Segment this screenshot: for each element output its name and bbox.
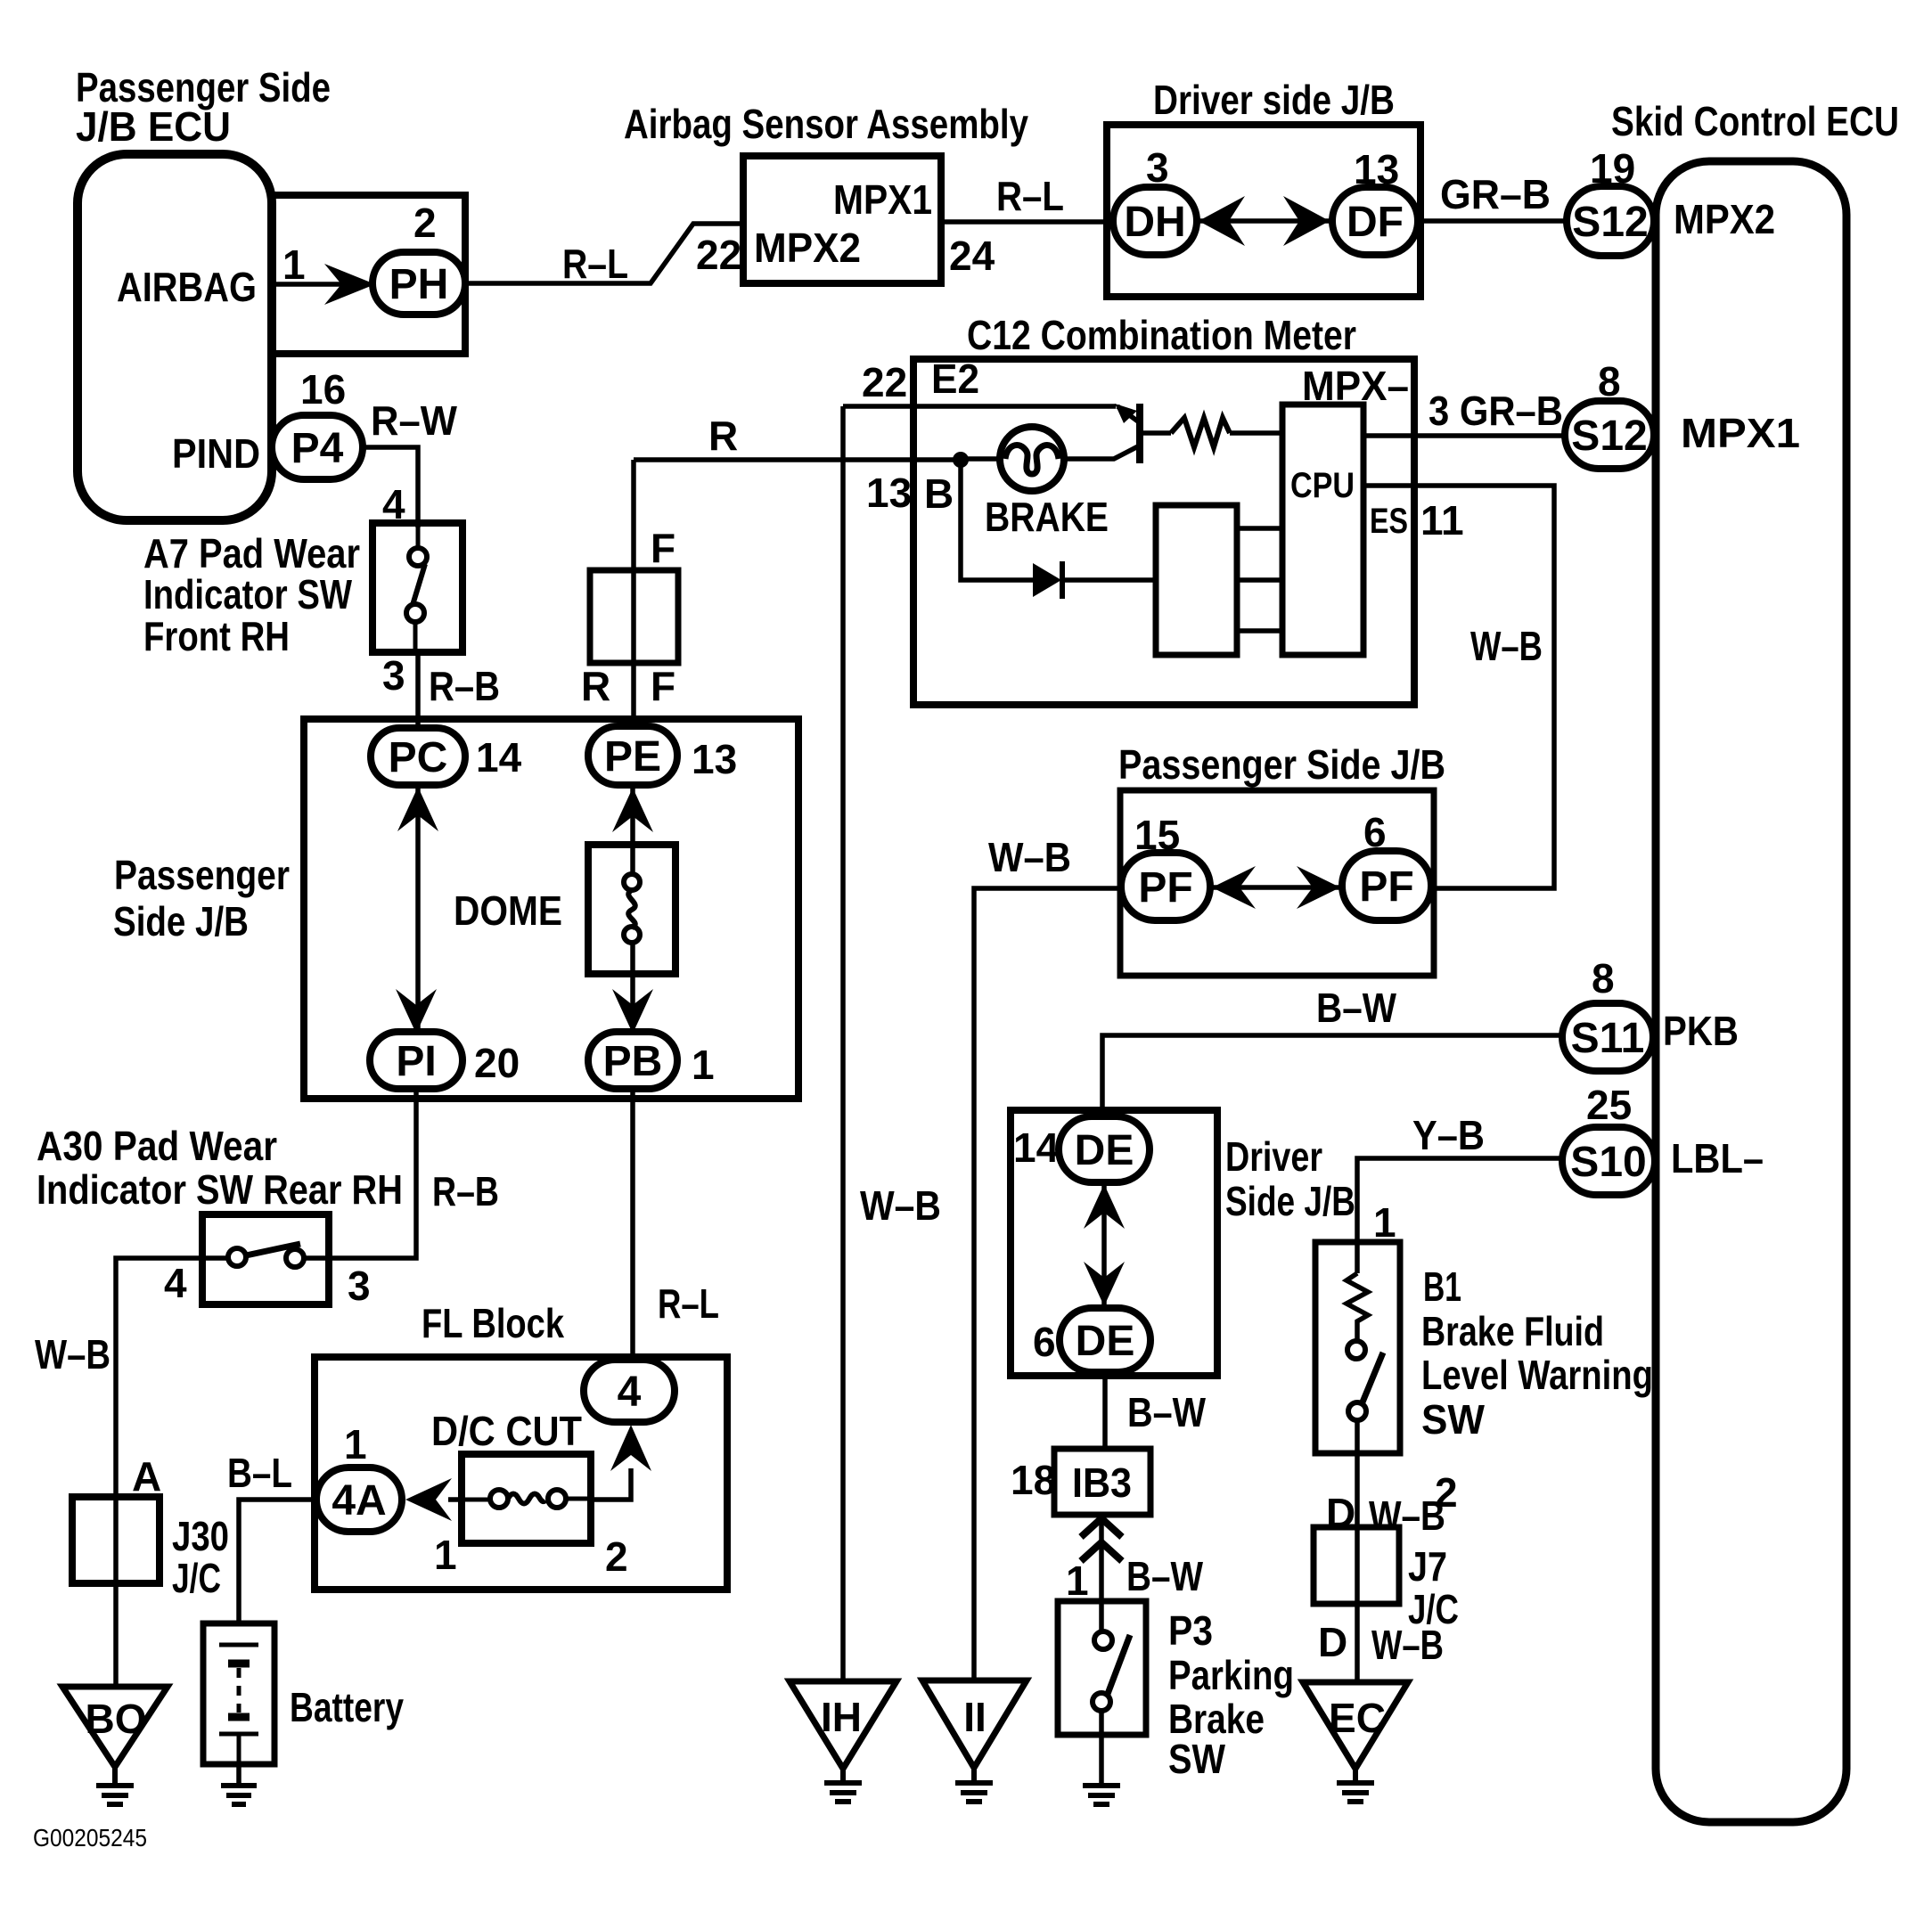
OVALS bbox=[272, 186, 1655, 1532]
connector PH bbox=[372, 252, 465, 315]
svg-text:W–B: W–B bbox=[1470, 623, 1543, 669]
D/C CUT fuse box bbox=[462, 1454, 591, 1543]
svg-text:Battery: Battery bbox=[290, 1684, 404, 1730]
wire R-W from P4 down to A7 switch bbox=[363, 447, 418, 527]
IB3 box bbox=[1054, 1449, 1150, 1515]
svg-text:Parking: Parking bbox=[1168, 1652, 1294, 1698]
ground triangle IH bbox=[790, 1681, 896, 1769]
svg-text:3: 3 bbox=[1146, 144, 1169, 191]
svg-text:22: 22 bbox=[862, 359, 907, 405]
svg-text:MPX1: MPX1 bbox=[1681, 410, 1800, 456]
wire R-B from A7 pin3 to PC bbox=[415, 652, 421, 730]
svg-text:R–B: R–B bbox=[429, 663, 500, 709]
svg-text:Skid Control ECU: Skid Control ECU bbox=[1611, 98, 1899, 144]
wire lamp to transistor collector bbox=[1064, 446, 1138, 459]
svg-text:B–W: B–W bbox=[1126, 1553, 1203, 1599]
svg-text:J30: J30 bbox=[172, 1513, 229, 1559]
arrow up into PC bbox=[397, 787, 438, 831]
connector P4 bbox=[272, 415, 363, 479]
svg-text:EC: EC bbox=[1329, 1695, 1386, 1741]
wire PC to PI inside J/B bbox=[415, 785, 421, 1034]
resistor zigzag bbox=[1171, 418, 1230, 447]
wire IB3 to P3 parking brake sw bbox=[1099, 1515, 1104, 1633]
svg-text:GR–B: GR–B bbox=[1440, 171, 1551, 217]
wire from A30 pin4 to J30 and BO ground (W-B) bbox=[116, 1258, 202, 1688]
svg-text:19: 19 bbox=[1590, 145, 1635, 192]
arrow DH left bbox=[1199, 196, 1245, 246]
A7 switch contacts bbox=[406, 548, 427, 622]
svg-text:11: 11 bbox=[1420, 497, 1464, 544]
svg-text:13: 13 bbox=[1354, 146, 1399, 192]
wire AIRBAG pin1 to PH bbox=[272, 282, 353, 287]
svg-text:CPU: CPU bbox=[1290, 466, 1355, 505]
svg-text:Front RH: Front RH bbox=[143, 613, 290, 659]
connector S11 bbox=[1562, 1003, 1653, 1071]
svg-text:20: 20 bbox=[474, 1040, 520, 1086]
svg-text:Side J/B: Side J/B bbox=[113, 898, 249, 944]
arrow into PH bbox=[324, 264, 375, 305]
wires internal box to CPU bbox=[1237, 528, 1282, 631]
svg-text:DH: DH bbox=[1124, 199, 1185, 246]
connector PF pin15 bbox=[1121, 853, 1210, 920]
wire PF15-PF6 link bbox=[1210, 885, 1342, 890]
svg-text:B–L: B–L bbox=[227, 1450, 292, 1496]
ground triangle EC bbox=[1303, 1682, 1408, 1769]
connector DF bbox=[1332, 187, 1418, 255]
svg-text:S10: S10 bbox=[1570, 1139, 1646, 1186]
svg-text:15: 15 bbox=[1134, 812, 1180, 858]
connector PC bbox=[371, 728, 465, 785]
svg-text:3: 3 bbox=[382, 652, 405, 699]
svg-text:P3: P3 bbox=[1168, 1607, 1213, 1654]
svg-text:PF: PF bbox=[1359, 863, 1413, 911]
Passenger Side J/B box (middle) bbox=[304, 719, 798, 1099]
connector PE bbox=[588, 726, 677, 785]
svg-text:14: 14 bbox=[1013, 1124, 1060, 1171]
C12 internal box bbox=[1156, 505, 1237, 655]
arrow up into oval 4 bbox=[610, 1425, 651, 1471]
wire R-B from PI down to A30 pin3 bbox=[329, 1089, 416, 1258]
arrow up into DE14 bbox=[1084, 1184, 1125, 1229]
connector S10 bbox=[1562, 1127, 1655, 1195]
svg-text:D: D bbox=[1318, 1619, 1347, 1665]
arrow down into PI bbox=[396, 989, 437, 1034]
FL Block box bbox=[315, 1357, 727, 1590]
wire E2 pin22 of C12 to IH drop line bbox=[843, 404, 1116, 409]
P3 switch contacts bbox=[1093, 1631, 1130, 1711]
A30 pad wear switch box bbox=[202, 1214, 329, 1304]
svg-text:Driver: Driver bbox=[1225, 1133, 1322, 1180]
svg-text:Side J/B: Side J/B bbox=[1225, 1178, 1355, 1224]
svg-text:B–W: B–W bbox=[1316, 985, 1397, 1031]
DOME switch contacts bbox=[624, 874, 640, 943]
svg-text:SW: SW bbox=[1421, 1396, 1486, 1443]
PH connector box bbox=[272, 195, 465, 354]
wire P3 to ground bbox=[1099, 1711, 1104, 1786]
DOME switch box bbox=[588, 845, 675, 974]
svg-text:A: A bbox=[132, 1453, 161, 1500]
svg-text:R–L: R–L bbox=[658, 1280, 719, 1327]
connector DH bbox=[1113, 187, 1197, 255]
ground IH bbox=[824, 1769, 862, 1802]
battery symbol bbox=[219, 1645, 258, 1762]
J10 J/C box bbox=[590, 570, 678, 663]
svg-text:IH: IH bbox=[821, 1694, 862, 1740]
svg-text:S12: S12 bbox=[1571, 413, 1647, 460]
svg-text:2: 2 bbox=[413, 200, 437, 246]
svg-text:R–B: R–B bbox=[432, 1168, 499, 1214]
svg-text:Passenger Side J/B: Passenger Side J/B bbox=[1118, 741, 1445, 788]
BRAKE lamp circle bbox=[1000, 427, 1064, 491]
svg-text:PH: PH bbox=[389, 261, 449, 308]
svg-text:F: F bbox=[651, 525, 675, 571]
svg-text:4: 4 bbox=[164, 1260, 187, 1306]
svg-text:PIND: PIND bbox=[172, 430, 260, 477]
ground triangle BO bbox=[62, 1687, 168, 1767]
svg-text:PB: PB bbox=[603, 1038, 663, 1085]
wire base to resistor to CPU bbox=[1143, 430, 1282, 436]
wire R-L from PH to Airbag Sensor Assembly pin22 bbox=[465, 224, 743, 283]
C12 Combination Meter box bbox=[913, 359, 1414, 705]
Skid Control ECU box bbox=[1656, 161, 1846, 1822]
svg-text:P4: P4 bbox=[291, 425, 344, 472]
wire B1 internals top bbox=[1355, 1244, 1360, 1273]
wire fuse to 4A arrow bbox=[448, 1497, 462, 1502]
svg-text:AIRBAG: AIRBAG bbox=[117, 264, 257, 310]
svg-text:A30 Pad Wear: A30 Pad Wear bbox=[37, 1123, 277, 1169]
svg-text:W–B: W–B bbox=[988, 834, 1071, 880]
BRAKE lamp filament bbox=[1005, 446, 1059, 474]
CPU box bbox=[1282, 405, 1363, 655]
diode bar bbox=[1060, 561, 1065, 599]
svg-text:8: 8 bbox=[1592, 955, 1615, 1001]
svg-text:3: 3 bbox=[348, 1263, 371, 1309]
wire 4A to battery (B-L) bbox=[239, 1500, 316, 1625]
wire B junction down to diode bbox=[961, 460, 1033, 580]
connector DE pin14 bbox=[1059, 1116, 1150, 1182]
diode triangle bbox=[1033, 563, 1061, 597]
wire diode to internal box bbox=[1062, 577, 1156, 583]
wire W-B vertical down to IH ground bbox=[840, 406, 846, 1682]
svg-text:8: 8 bbox=[1598, 358, 1621, 405]
svg-text:J/B ECU: J/B ECU bbox=[76, 103, 231, 150]
wire B1 switch to J7 and EC ground bbox=[1355, 1420, 1360, 1684]
svg-text:G00205245: G00205245 bbox=[33, 1824, 147, 1852]
connector 4 in FL block bbox=[584, 1360, 675, 1422]
svg-text:Passenger: Passenger bbox=[114, 852, 290, 898]
wire GR-B from DF to S12 pin19 bbox=[1418, 218, 1568, 224]
svg-text:W–B: W–B bbox=[1371, 1622, 1444, 1668]
connector S12 pin8 bbox=[1565, 401, 1654, 469]
svg-text:Indicator SW: Indicator SW bbox=[143, 571, 352, 617]
chevron arrows above P3 wire bbox=[1081, 1518, 1122, 1561]
wire B1 resistor zigzag bbox=[1347, 1273, 1368, 1341]
svg-text:R: R bbox=[581, 663, 610, 709]
svg-text:Indicator SW Rear RH: Indicator SW Rear RH bbox=[37, 1166, 403, 1213]
svg-text:BRAKE: BRAKE bbox=[985, 494, 1109, 540]
connector DE pin6 bbox=[1060, 1308, 1150, 1372]
svg-text:14: 14 bbox=[476, 734, 522, 781]
svg-text:1: 1 bbox=[692, 1042, 715, 1088]
svg-text:MPX2: MPX2 bbox=[1674, 196, 1775, 242]
svg-text:1: 1 bbox=[344, 1421, 367, 1467]
wire Y-B from S10 pin25 to B1 bbox=[1357, 1158, 1562, 1244]
wire W-B from II line to PF15 bbox=[974, 888, 1121, 1682]
svg-text:24: 24 bbox=[949, 233, 995, 279]
svg-text:16: 16 bbox=[300, 366, 346, 413]
svg-text:2: 2 bbox=[605, 1533, 628, 1580]
A30 switch contacts bbox=[228, 1244, 304, 1267]
svg-text:IB3: IB3 bbox=[1072, 1459, 1132, 1506]
svg-text:13: 13 bbox=[866, 470, 912, 516]
D/C CUT fuse symbol bbox=[462, 1490, 591, 1508]
svg-text:1: 1 bbox=[1066, 1557, 1089, 1604]
wire PE to PB through DOME bbox=[630, 785, 635, 1034]
svg-text:Driver side J/B: Driver side J/B bbox=[1153, 77, 1395, 123]
Driver Side J/B box (bottom) bbox=[1011, 1110, 1217, 1376]
svg-text:ES: ES bbox=[1370, 502, 1408, 541]
svg-text:W–B: W–B bbox=[860, 1182, 941, 1229]
transistor emitter arrowhead bbox=[1115, 404, 1137, 423]
ground P3 bbox=[1083, 1786, 1120, 1804]
svg-text:D/C CUT: D/C CUT bbox=[431, 1408, 582, 1454]
connector PF pin6 bbox=[1342, 851, 1431, 920]
Passenger Side J/B box (right) bbox=[1120, 790, 1434, 976]
wire A30 lever left stub bbox=[202, 1255, 228, 1261]
svg-text:Brake Fluid: Brake Fluid bbox=[1421, 1308, 1604, 1354]
ground battery bbox=[221, 1786, 257, 1804]
connector PB bbox=[588, 1032, 677, 1089]
svg-text:25: 25 bbox=[1586, 1082, 1632, 1128]
transistor base bar bbox=[1136, 404, 1143, 463]
A7 switch wire stubs bbox=[415, 527, 418, 652]
svg-text:II: II bbox=[963, 1694, 986, 1740]
svg-text:13: 13 bbox=[692, 736, 737, 782]
Driver side J/B box bbox=[1107, 125, 1420, 297]
wire A30 right stub bbox=[304, 1255, 329, 1261]
svg-text:A7 Pad Wear: A7 Pad Wear bbox=[143, 530, 360, 576]
svg-text:MPX2: MPX2 bbox=[754, 225, 861, 271]
svg-text:MPX–: MPX– bbox=[1302, 363, 1409, 409]
svg-text:Airbag Sensor Assembly: Airbag Sensor Assembly bbox=[624, 101, 1028, 147]
wire 3 GR-B from CPU to S12 pin8 bbox=[1364, 433, 1567, 438]
svg-text:6: 6 bbox=[1033, 1319, 1056, 1365]
svg-text:4A: 4A bbox=[332, 1477, 386, 1525]
wire DE14 to DE6 bbox=[1101, 1182, 1107, 1308]
wire DH-DF link bbox=[1197, 218, 1333, 224]
svg-text:B–W: B–W bbox=[1127, 1389, 1206, 1435]
svg-text:1: 1 bbox=[282, 241, 306, 288]
wire ES pin11 W-B down to PF6 bbox=[1364, 486, 1554, 888]
svg-text:B1: B1 bbox=[1423, 1263, 1461, 1310]
Passenger Side J/B ECU box bbox=[78, 154, 272, 520]
connector 4A in FL block bbox=[316, 1467, 402, 1532]
svg-text:Level Warning: Level Warning bbox=[1421, 1352, 1653, 1398]
connector S12 pin19 bbox=[1567, 186, 1654, 256]
svg-text:R–L: R–L bbox=[562, 241, 628, 287]
ground BO bbox=[96, 1767, 134, 1804]
svg-text:DOME: DOME bbox=[454, 887, 562, 934]
wire node B to lamp bbox=[961, 456, 1002, 462]
A7 pad wear switch box bbox=[372, 523, 463, 652]
svg-text:S12: S12 bbox=[1572, 199, 1648, 246]
J30 J/C box bbox=[72, 1497, 160, 1583]
ground triangle II bbox=[922, 1680, 1027, 1768]
svg-text:PKB: PKB bbox=[1663, 1008, 1739, 1054]
svg-text:4: 4 bbox=[618, 1369, 642, 1416]
svg-text:FL Block: FL Block bbox=[422, 1300, 564, 1346]
P3 parking brake switch box bbox=[1058, 1601, 1146, 1735]
svg-text:D: D bbox=[1326, 1490, 1355, 1536]
svg-text:E2: E2 bbox=[931, 356, 979, 402]
svg-text:1: 1 bbox=[434, 1532, 457, 1578]
ARROWS bbox=[324, 196, 1340, 1521]
svg-text:W–B: W–B bbox=[1369, 1492, 1445, 1539]
svg-text:DE: DE bbox=[1076, 1318, 1135, 1365]
svg-text:B: B bbox=[924, 470, 954, 517]
B1 brake fluid level warning switch box bbox=[1315, 1242, 1400, 1453]
wire J10 vertical R/F bbox=[631, 460, 636, 730]
svg-text:LBL–: LBL– bbox=[1671, 1135, 1764, 1181]
arrow down into DE6 bbox=[1084, 1262, 1125, 1306]
svg-text:PI: PI bbox=[396, 1038, 436, 1085]
svg-text:1: 1 bbox=[1373, 1199, 1396, 1246]
svg-text:R: R bbox=[708, 413, 738, 459]
svg-text:J7: J7 bbox=[1408, 1543, 1447, 1590]
wire R from J10 to C12 pin13 B bbox=[634, 457, 961, 462]
arrow up into PE bbox=[612, 788, 653, 832]
svg-text:Y–B: Y–B bbox=[1412, 1112, 1485, 1158]
arrow into 4A bbox=[405, 1478, 452, 1521]
B1 switch contacts bbox=[1347, 1341, 1383, 1420]
svg-text:DF: DF bbox=[1347, 199, 1404, 246]
ground EC bbox=[1337, 1769, 1374, 1802]
Airbag Sensor Assembly box bbox=[743, 156, 941, 283]
Battery box bbox=[203, 1623, 274, 1764]
svg-text:4: 4 bbox=[382, 481, 405, 527]
svg-text:PE: PE bbox=[604, 733, 661, 781]
connector PI bbox=[370, 1032, 463, 1089]
svg-text:BO: BO bbox=[86, 1696, 147, 1742]
svg-text:F: F bbox=[651, 663, 675, 709]
svg-text:6: 6 bbox=[1363, 809, 1387, 855]
svg-text:PC: PC bbox=[389, 734, 448, 781]
svg-text:SW: SW bbox=[1168, 1736, 1225, 1782]
svg-text:MPX1: MPX1 bbox=[833, 176, 932, 223]
svg-text:J/C: J/C bbox=[172, 1555, 221, 1601]
svg-text:22: 22 bbox=[696, 232, 741, 278]
svg-text:DE: DE bbox=[1075, 1127, 1134, 1174]
svg-text:C12 Combination Meter: C12 Combination Meter bbox=[967, 312, 1356, 358]
svg-text:3 GR–B: 3 GR–B bbox=[1429, 388, 1563, 434]
svg-text:R–W: R–W bbox=[371, 397, 458, 444]
svg-text:PF: PF bbox=[1138, 864, 1192, 912]
arrow PF left bbox=[1212, 866, 1256, 909]
svg-text:R–L: R–L bbox=[996, 173, 1064, 219]
arrow DF right bbox=[1283, 196, 1330, 246]
ground II bbox=[955, 1768, 993, 1802]
wire transistor emitter bbox=[1117, 406, 1138, 421]
wire B-W from S11 pin8 to DE14 bbox=[1102, 1035, 1568, 1116]
wire R-L from PB down to FL block oval 4 bbox=[630, 1089, 635, 1361]
wire battery to ground bbox=[236, 1762, 241, 1786]
wire fuse to oval4 bbox=[591, 1468, 631, 1500]
svg-text:18: 18 bbox=[1011, 1457, 1056, 1503]
svg-text:W–B: W–B bbox=[35, 1331, 111, 1378]
arrow PF right bbox=[1297, 866, 1340, 909]
wire R-L from MPX1 pin24 to DH bbox=[941, 219, 1116, 225]
arrow down into PB bbox=[612, 989, 653, 1034]
svg-text:S11: S11 bbox=[1571, 1015, 1645, 1062]
junction dot node B bbox=[953, 452, 969, 468]
J7 J/C box bbox=[1314, 1527, 1399, 1604]
wire B-W from DE6 to IB3 bbox=[1102, 1372, 1108, 1449]
